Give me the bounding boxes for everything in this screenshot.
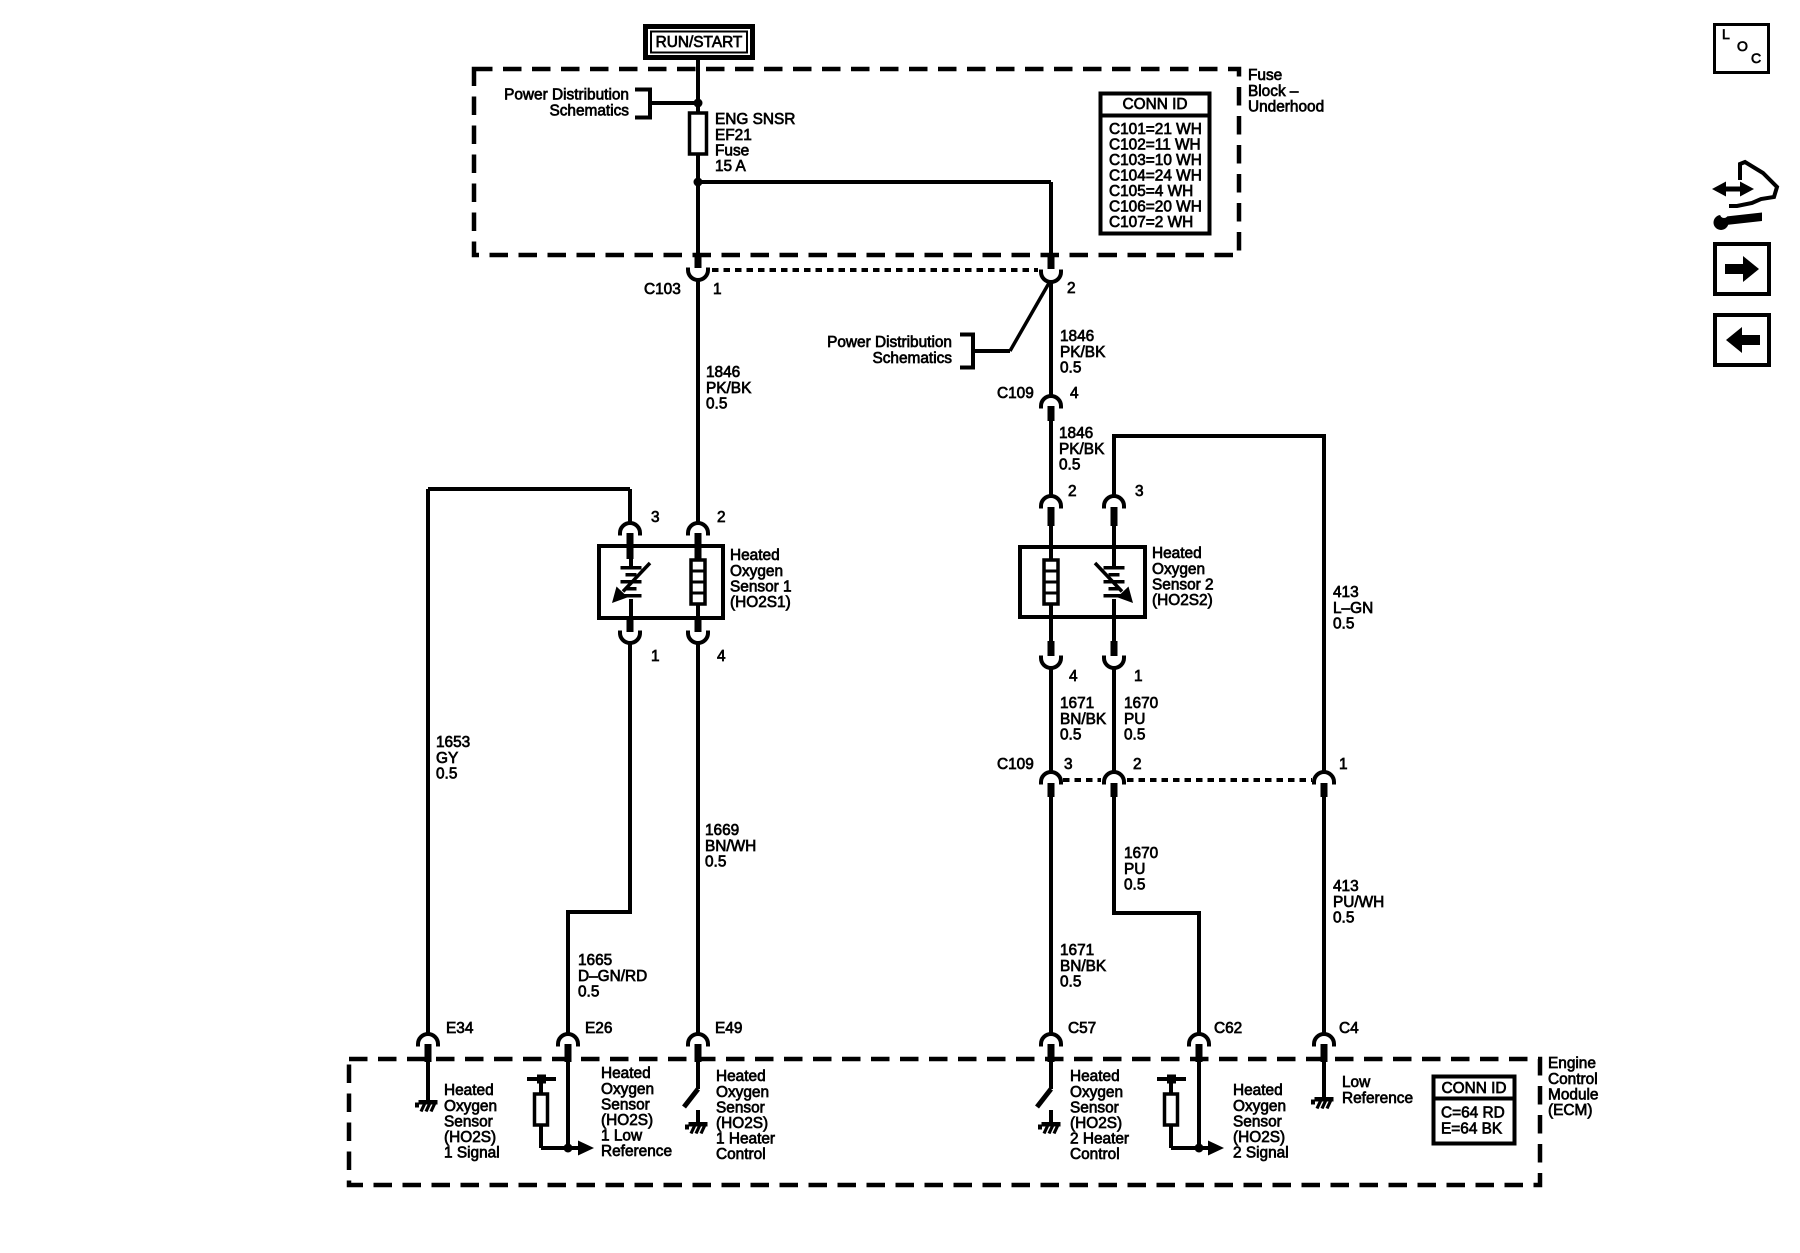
svg-text:Reference: Reference	[601, 1143, 672, 1160]
svg-text:Reference: Reference	[1342, 1090, 1413, 1107]
svg-text:C: C	[1751, 50, 1761, 66]
pin 3 label (C109 lower)	[1064, 756, 1073, 773]
ground (E34 signal)	[415, 1062, 438, 1112]
junction C62 node	[1195, 1144, 1204, 1153]
svg-text:(HO2S): (HO2S)	[444, 1129, 496, 1146]
connector C109 pin 2	[1104, 772, 1124, 797]
label C103	[644, 281, 681, 298]
label Heated Oxygen Sensor (HO2S) 2 Signal	[1233, 1082, 1289, 1161]
wire 1846 PK/BK (C103-1 to HO2S1)	[696, 280, 700, 524]
label Heated Oxygen Sensor (HO2S) 2 Heater Control	[1070, 1068, 1129, 1163]
svg-text:1846: 1846	[1060, 328, 1094, 345]
junction at fuse input	[694, 99, 703, 108]
svg-text:C109: C109	[997, 385, 1034, 402]
pin 4 label (C109 upper)	[1070, 385, 1079, 402]
svg-text:PK/BK: PK/BK	[706, 380, 752, 397]
svg-text:Control: Control	[716, 1146, 766, 1163]
power rail label RUN/START	[646, 27, 753, 58]
svg-text:1653: 1653	[436, 734, 470, 751]
svg-text:2: 2	[1068, 483, 1077, 500]
svg-text:15 A: 15 A	[715, 158, 747, 175]
label wire 1671 BN/BK 0.5 (lower)	[1060, 942, 1107, 990]
wire HO2S1 pin 3 riser	[628, 489, 632, 524]
svg-text:D–GN/RD: D–GN/RD	[578, 968, 647, 985]
svg-text:C104=24 WH: C104=24 WH	[1109, 168, 1202, 185]
heater element (HO2S1)	[691, 560, 705, 618]
svg-text:Sensor 2: Sensor 2	[1152, 576, 1214, 593]
svg-text:3: 3	[1135, 483, 1144, 500]
wire branch to C103 pin 2	[698, 182, 1051, 258]
dotted inline connector line C103	[712, 268, 1038, 272]
pin 1 label (HO2S1)	[651, 648, 660, 665]
CONN ID table (ECM)	[1433, 1077, 1515, 1144]
wire RUN/START to fuse EF21	[696, 60, 700, 114]
svg-text:C102=11 WH: C102=11 WH	[1109, 137, 1201, 154]
svg-text:O: O	[1737, 38, 1748, 54]
svg-text:0.5: 0.5	[1124, 876, 1145, 893]
connector HO2S2 pin 3	[1104, 496, 1124, 548]
svg-text:Fuse: Fuse	[1248, 67, 1282, 84]
svg-text:E26: E26	[585, 1020, 612, 1037]
svg-text:Control: Control	[1070, 1146, 1120, 1163]
pin 4 label (HO2S2)	[1069, 668, 1078, 685]
connector pin E26	[558, 1034, 578, 1062]
svg-text:Sensor: Sensor	[716, 1099, 765, 1116]
svg-text:C4: C4	[1339, 1020, 1359, 1037]
svg-text:C101=21 WH: C101=21 WH	[1109, 121, 1202, 138]
connector C109 pin 3	[1041, 772, 1061, 797]
wire 1669 BN/WH (HO2S1-4 to E49)	[696, 643, 700, 1035]
svg-text:Oxygen: Oxygen	[1152, 561, 1205, 578]
callout Power Distribution Schematics (upper)	[504, 87, 698, 120]
LOC reference icon	[1715, 25, 1769, 73]
svg-text:C57: C57	[1068, 1020, 1096, 1037]
svg-text:Module: Module	[1548, 1086, 1598, 1103]
svg-text:(HO2S1): (HO2S1)	[730, 594, 791, 611]
label Heated Oxygen Sensor 2 (HO2S2)	[1152, 545, 1214, 609]
svg-text:4: 4	[1069, 668, 1078, 685]
label wire 413 PU/WH 0.5	[1333, 878, 1384, 926]
label wire 1670 PU 0.5 (upper)	[1124, 695, 1158, 743]
wire 1671 BN/BK (HO2S2-4 to C109-3)	[1049, 668, 1053, 773]
label wire 1671 BN/BK 0.5 (upper)	[1060, 695, 1107, 743]
wire 1671 BN/BK (C109-3 to C57)	[1049, 797, 1053, 1035]
svg-text:BN/WH: BN/WH	[705, 838, 756, 855]
svg-text:4: 4	[1070, 385, 1079, 402]
connector HO2S2 pin 4	[1041, 617, 1061, 668]
harness routing icon	[1712, 162, 1777, 230]
label ENG SNSR EF21 Fuse 15 A	[715, 111, 795, 175]
label wire 1670 PU 0.5 (lower)	[1124, 845, 1158, 893]
svg-text:PU: PU	[1124, 861, 1145, 878]
wire 1665 D-GN/RD (HO2S1-1 to E26)	[568, 643, 630, 1035]
pin 2 label (C109 lower)	[1133, 756, 1142, 773]
oxygen sense element (HO2S2)	[1095, 548, 1133, 617]
svg-text:Sensor: Sensor	[444, 1113, 493, 1130]
connector HO2S2 pin 1	[1104, 617, 1124, 668]
svg-text:2: 2	[1067, 280, 1076, 297]
svg-text:1: 1	[713, 281, 722, 298]
label C4	[1339, 1020, 1359, 1037]
svg-text:2 Heater: 2 Heater	[1070, 1131, 1129, 1148]
connector HO2S1 pin 4	[688, 618, 708, 643]
pin 1 label (C109 lower)	[1339, 756, 1348, 773]
svg-text:Schematics: Schematics	[872, 350, 952, 367]
wire C62 to signal node	[1197, 1062, 1201, 1148]
label E49	[715, 1020, 742, 1037]
svg-text:PU: PU	[1124, 711, 1145, 728]
svg-text:CONN ID: CONN ID	[1123, 96, 1188, 113]
svg-text:0.5: 0.5	[578, 983, 599, 1000]
ground (C4 low reference)	[1311, 1062, 1334, 1109]
svg-text:L: L	[1722, 26, 1730, 42]
svg-text:Engine: Engine	[1548, 1055, 1596, 1072]
svg-text:(HO2S): (HO2S)	[716, 1115, 768, 1132]
svg-text:C103: C103	[644, 281, 681, 298]
svg-text:1: 1	[1339, 756, 1348, 773]
CONN ID table (fuse block)	[1100, 94, 1210, 234]
svg-text:0.5: 0.5	[706, 395, 727, 412]
dotted inline connector line C109	[1063, 778, 1312, 782]
svg-text:413: 413	[1333, 584, 1359, 601]
wire fuse EF21 to connector C103 pin 1	[696, 150, 700, 257]
pin 1 label (HO2S2)	[1134, 668, 1143, 685]
svg-text:GY: GY	[436, 750, 458, 767]
svg-text:1670: 1670	[1124, 695, 1158, 712]
svg-text:PU/WH: PU/WH	[1333, 894, 1384, 911]
wire 413 L-GN top run	[1114, 436, 1324, 773]
label wire 413 L-GN 0.5	[1333, 584, 1373, 632]
svg-text:0.5: 0.5	[1333, 615, 1354, 632]
wire 413 PU/WH (C109-1 to C4)	[1322, 797, 1326, 1035]
label wire 1665 D-GN/RD 0.5	[578, 952, 647, 1000]
connector HO2S1 pin 1	[620, 618, 640, 643]
svg-text:PK/BK: PK/BK	[1060, 344, 1106, 361]
svg-text:Oxygen: Oxygen	[601, 1081, 654, 1098]
svg-text:3: 3	[1064, 756, 1073, 773]
low reference arrow (1)	[541, 1141, 594, 1156]
sensor box HO2S2	[1020, 547, 1145, 617]
label Engine Control Module (ECM)	[1548, 1055, 1598, 1119]
svg-text:1670: 1670	[1124, 845, 1158, 862]
svg-text:Sensor: Sensor	[1070, 1099, 1119, 1116]
svg-text:1: 1	[1134, 668, 1143, 685]
svg-text:(HO2S2): (HO2S2)	[1152, 592, 1213, 609]
connector C109 pin 4	[1041, 396, 1061, 421]
fuse ENG SNSR EF21 15 A	[690, 113, 707, 154]
svg-text:C107=2 WH: C107=2 WH	[1109, 214, 1193, 231]
svg-text:C=64 RD: C=64 RD	[1441, 1105, 1505, 1122]
svg-text:1: 1	[651, 648, 660, 665]
svg-text:0.5: 0.5	[1060, 726, 1081, 743]
callout Power Distribution Schematics (lower)	[827, 283, 1049, 368]
svg-text:1846: 1846	[706, 364, 740, 381]
heater driver switch (C57)	[1037, 1062, 1051, 1123]
signal arrow (2)	[1171, 1141, 1224, 1156]
svg-text:Low: Low	[1342, 1074, 1371, 1091]
wire 1846 PK/BK (C109-4 to HO2S2 pin 2)	[1049, 421, 1053, 497]
engine control module dashed box	[349, 1059, 1540, 1185]
svg-text:Heated: Heated	[1152, 545, 1202, 562]
svg-text:Control: Control	[1548, 1071, 1598, 1088]
svg-text:2: 2	[717, 509, 726, 526]
label wire 1846 PK/BK 0.5 (left)	[706, 364, 752, 412]
wire 1846 PK/BK (C103-2 to C109-4)	[1049, 282, 1053, 397]
svg-text:ENG SNSR: ENG SNSR	[715, 111, 795, 128]
svg-text:1671: 1671	[1060, 695, 1094, 712]
label wire 1846 PK/BK 0.5 (right upper)	[1060, 328, 1106, 376]
wire E26 to low reference node	[566, 1062, 570, 1148]
svg-text:E49: E49	[715, 1020, 742, 1037]
svg-text:1671: 1671	[1060, 942, 1094, 959]
connector C103 pin 1	[688, 253, 708, 280]
svg-text:1 Low: 1 Low	[601, 1128, 643, 1145]
previous page icon (arrow left)	[1715, 315, 1769, 365]
svg-text:Heated: Heated	[716, 1068, 766, 1085]
svg-text:(HO2S): (HO2S)	[601, 1112, 653, 1129]
label C109 (lower)	[997, 756, 1034, 773]
heater element (HO2S2)	[1044, 548, 1058, 617]
svg-text:1 Signal: 1 Signal	[444, 1145, 500, 1162]
label E26	[585, 1020, 612, 1037]
ground (C57 heater control)	[1038, 1122, 1061, 1134]
label C57	[1068, 1020, 1096, 1037]
wire 1670 PU (C109-2 to C62)	[1114, 797, 1199, 1035]
svg-text:2: 2	[1133, 756, 1142, 773]
svg-text:Underhood: Underhood	[1248, 98, 1324, 115]
label C109 (upper)	[997, 385, 1034, 402]
svg-text:Heated: Heated	[444, 1082, 494, 1099]
label wire 1669 BN/WH 0.5	[705, 822, 756, 870]
pin 1 label (C103)	[713, 281, 722, 298]
label C62	[1214, 1020, 1242, 1037]
oxygen sense element (HO2S1)	[612, 559, 650, 618]
next page icon (arrow right)	[1715, 244, 1769, 294]
svg-text:Heated: Heated	[1233, 1082, 1283, 1099]
svg-text:413: 413	[1333, 878, 1359, 895]
label Fuse Block - Underhood	[1248, 67, 1324, 115]
wire 1653 GY (to E34)	[426, 489, 430, 1035]
svg-text:BN/BK: BN/BK	[1060, 711, 1107, 728]
svg-text:0.5: 0.5	[436, 765, 457, 782]
svg-text:Oxygen: Oxygen	[444, 1098, 497, 1115]
svg-text:0.5: 0.5	[1060, 359, 1081, 376]
fuse block underhood dashed box	[474, 69, 1239, 255]
connector C109 pin 1	[1314, 772, 1334, 797]
svg-text:2 Signal: 2 Signal	[1233, 1145, 1289, 1162]
svg-text:BN/BK: BN/BK	[1060, 958, 1107, 975]
svg-text:C103=10 WH: C103=10 WH	[1109, 152, 1202, 169]
svg-text:L–GN: L–GN	[1333, 600, 1373, 617]
svg-text:0.5: 0.5	[1060, 973, 1081, 990]
ground (E49 heater control)	[685, 1122, 708, 1134]
pin 2 label (HO2S2)	[1068, 483, 1077, 500]
svg-text:C109: C109	[997, 756, 1034, 773]
pin 2 label (HO2S1)	[717, 509, 726, 526]
sensor box HO2S1	[599, 546, 723, 618]
svg-text:CONN ID: CONN ID	[1442, 1080, 1507, 1097]
junction fuse output to HO2S2 branch	[694, 178, 703, 187]
wire 1670 PU (HO2S2-1 to C109-2)	[1112, 668, 1116, 773]
svg-text:4: 4	[717, 648, 726, 665]
connector pin C4	[1314, 1034, 1334, 1062]
svg-text:C62: C62	[1214, 1020, 1242, 1037]
svg-text:0.5: 0.5	[1333, 909, 1354, 926]
svg-text:(HO2S): (HO2S)	[1070, 1115, 1122, 1132]
svg-text:Heated: Heated	[601, 1065, 651, 1082]
svg-text:Power Distribution: Power Distribution	[827, 334, 952, 351]
svg-text:Sensor 1: Sensor 1	[730, 578, 792, 595]
connector HO2S1 pin 3	[620, 523, 640, 559]
pin 4 label (HO2S1)	[717, 648, 726, 665]
svg-text:Heated: Heated	[730, 547, 780, 564]
label Heated Oxygen Sensor (HO2S) 1 Low Reference	[601, 1065, 672, 1160]
svg-text:Power Distribution: Power Distribution	[504, 87, 629, 104]
pin 3 label (HO2S1)	[651, 509, 660, 526]
label Heated Oxygen Sensor (HO2S) 1 Heater Control	[716, 1068, 775, 1163]
label Heated Oxygen Sensor (HO2S) 1 Signal	[444, 1082, 500, 1161]
svg-text:0.5: 0.5	[1059, 456, 1080, 473]
svg-text:EF21: EF21	[715, 127, 752, 144]
svg-text:Sensor: Sensor	[601, 1096, 650, 1113]
svg-text:0.5: 0.5	[1124, 726, 1145, 743]
label wire 1653 GY 0.5	[436, 734, 470, 782]
svg-text:E=64 BK: E=64 BK	[1441, 1120, 1503, 1137]
label E34	[446, 1020, 474, 1037]
pull-up resistor (2 signal)	[1157, 1075, 1186, 1149]
svg-text:C106=20 WH: C106=20 WH	[1109, 199, 1202, 216]
svg-text:(ECM): (ECM)	[1548, 1102, 1592, 1119]
label Low Reference	[1342, 1074, 1413, 1107]
wire 1653 GY horizontal run	[428, 487, 630, 491]
svg-text:Fuse: Fuse	[715, 142, 749, 159]
svg-text:1665: 1665	[578, 952, 612, 969]
svg-text:Oxygen: Oxygen	[716, 1084, 769, 1101]
svg-text:Heated: Heated	[1070, 1068, 1120, 1085]
pin 2 label (C103)	[1067, 280, 1076, 297]
connector pin E49	[688, 1034, 708, 1062]
connector HO2S1 pin 2	[688, 523, 708, 559]
svg-text:Oxygen: Oxygen	[1070, 1084, 1123, 1101]
svg-text:Oxygen: Oxygen	[1233, 1098, 1286, 1115]
connector pin C57	[1041, 1034, 1061, 1062]
connector HO2S2 pin 2	[1041, 496, 1061, 548]
pull-up resistor (1 low reference)	[527, 1075, 556, 1149]
svg-text:(HO2S): (HO2S)	[1233, 1129, 1285, 1146]
junction E26 node	[564, 1144, 573, 1153]
svg-text:Block –: Block –	[1248, 83, 1299, 100]
label Heated Oxygen Sensor 1 (HO2S1)	[730, 547, 792, 611]
connector pin C62	[1189, 1034, 1209, 1062]
heater driver switch (E49)	[684, 1062, 698, 1123]
svg-text:1669: 1669	[705, 822, 739, 839]
svg-text:Schematics: Schematics	[549, 102, 629, 119]
svg-text:1 Heater: 1 Heater	[716, 1131, 775, 1148]
svg-text:C105=4 WH: C105=4 WH	[1109, 183, 1193, 200]
connector pin E34	[418, 1034, 438, 1062]
svg-text:3: 3	[651, 509, 660, 526]
svg-text:1846: 1846	[1059, 425, 1093, 442]
svg-text:RUN/START: RUN/START	[656, 34, 743, 51]
connector C103 pin 2	[1041, 254, 1061, 282]
svg-text:PK/BK: PK/BK	[1059, 441, 1105, 458]
label wire 1846 PK/BK 0.5 (below C109)	[1059, 425, 1105, 473]
svg-text:E34: E34	[446, 1020, 474, 1037]
pin 3 label (HO2S2)	[1135, 483, 1144, 500]
svg-text:Sensor: Sensor	[1233, 1113, 1282, 1130]
svg-text:Oxygen: Oxygen	[730, 563, 783, 580]
svg-text:0.5: 0.5	[705, 853, 726, 870]
